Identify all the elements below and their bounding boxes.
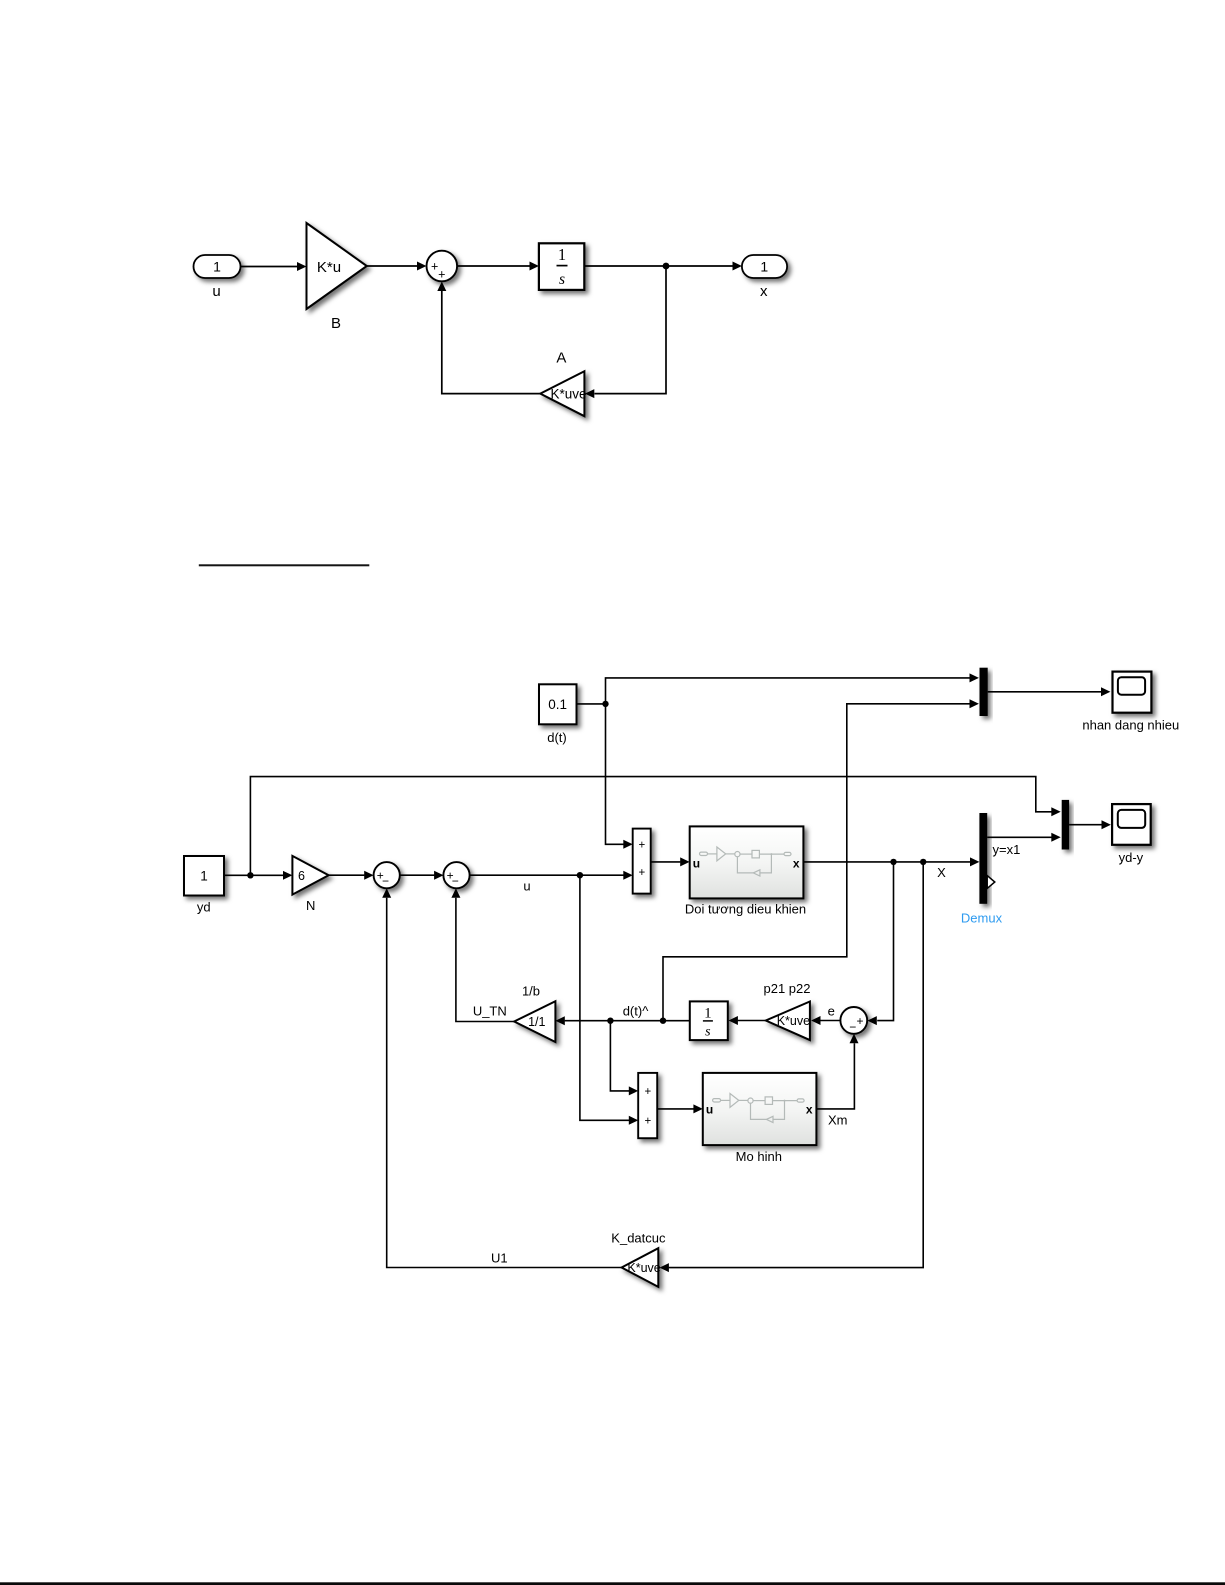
svg-text:0.1: 0.1 <box>548 697 567 712</box>
scope nhan dang nhieu <box>1113 672 1152 713</box>
svg-text:x: x <box>793 857 800 871</box>
constant yd (1) <box>184 856 224 896</box>
wire X to sum S3 right input <box>867 862 893 1025</box>
wire In1 to gain B <box>241 262 307 271</box>
junction node X wire to sum S3 <box>890 859 896 865</box>
svg-text:U1: U1 <box>491 1250 508 1265</box>
wire gain N to sum S2a <box>329 871 374 880</box>
sum rectangle SR2 (+ +) <box>638 1073 657 1138</box>
junction node d(t)-hat to mux path <box>660 1018 666 1024</box>
svg-text:K_datcuc: K_datcuc <box>611 1230 666 1245</box>
svg-text:+: + <box>438 268 445 282</box>
wire sum S2b to sum rect SR1 (u wire) <box>470 871 633 880</box>
svg-text:x: x <box>760 283 768 300</box>
wire d(t) to mux M1 top input <box>606 673 979 704</box>
svg-text:1: 1 <box>704 1005 712 1021</box>
svg-text:nhan dang nhieu: nhan dang nhieu <box>1082 717 1179 732</box>
wire integrator to outport x <box>584 262 742 271</box>
svg-text:x: x <box>806 1102 813 1116</box>
svg-text:1/1: 1/1 <box>528 1015 545 1029</box>
svg-text:e: e <box>828 1004 835 1019</box>
svg-text:d(t): d(t) <box>547 730 567 745</box>
svg-text:1: 1 <box>760 259 768 275</box>
junction node on yd wire <box>247 872 253 878</box>
scope yd-y <box>1112 804 1151 845</box>
svg-text:1: 1 <box>558 245 566 264</box>
constant d(t) (0.1) <box>539 684 577 724</box>
svg-text:+: + <box>644 1115 651 1127</box>
svg-text:u: u <box>693 857 700 871</box>
svg-text:K*u: K*u <box>317 259 341 276</box>
wire mux M1 to scope nhan dang nhieu <box>988 687 1111 696</box>
svg-text:s: s <box>705 1024 711 1039</box>
wire gain A to sum S1 bottom <box>437 282 540 394</box>
junction node d(t)-hat to SR2 path <box>607 1018 613 1024</box>
sum S2a (+ -) <box>374 862 400 888</box>
svg-text:1/b: 1/b <box>522 984 540 999</box>
wire sum S3 to gain p21 p22 (e wire) <box>811 1016 840 1025</box>
svg-text:u: u <box>212 283 220 300</box>
svg-text:−: − <box>382 874 389 888</box>
svg-text:6: 6 <box>298 869 305 883</box>
wire integrator I2 to gain 1/b <box>555 1016 689 1025</box>
svg-text:K*uve: K*uve <box>551 386 587 401</box>
subsystem SS1 "Doi tuong dieu khien" <box>690 826 804 898</box>
wire gain K_datcuc to sum S2a bottom input (U1 wire) <box>382 888 621 1267</box>
svg-text:+: + <box>638 839 645 851</box>
mux M2 <box>1062 800 1069 850</box>
integrator block 1/s <box>539 243 584 290</box>
gain p21 p22 (K*uve, flipped) <box>766 1002 810 1041</box>
feedback wire x to gain A <box>585 266 666 398</box>
junction node on x wire <box>663 263 670 270</box>
svg-text:1: 1 <box>200 869 208 884</box>
svg-text:1: 1 <box>213 259 221 275</box>
wire X to gain K_datcuc <box>660 862 924 1272</box>
wire d(t)-hat to mux M1 bottom input <box>663 699 979 1020</box>
integrator I2 (1/s, flipped) <box>690 1001 728 1040</box>
demux block <box>979 813 987 904</box>
svg-text:+: + <box>638 867 645 879</box>
wire yd branch to mux M2 top input <box>250 777 1060 876</box>
wire sum S1 to integrator 1/s <box>457 262 539 271</box>
svg-text:−: − <box>452 874 459 888</box>
wire d(t)-hat to sum rect SR2 top input <box>610 1021 638 1096</box>
sum S3 (e sum, flipped) <box>840 1007 867 1034</box>
gain A (K*uve, flipped) <box>540 371 586 416</box>
demux out2 unconnected port arrow <box>987 876 995 889</box>
svg-text:+: + <box>644 1086 651 1098</box>
subsystem SS2 "Mo hinh" <box>703 1073 817 1145</box>
wire demux out1 to mux M2 bottom input <box>987 833 1060 842</box>
svg-text:s: s <box>559 271 565 288</box>
underline rule <box>199 564 369 566</box>
gain B (K*u) <box>307 223 367 309</box>
wire d(t) to sum rect SR1 top input <box>606 704 633 849</box>
svg-text:y=x1: y=x1 <box>993 842 1021 857</box>
svg-text:B: B <box>331 315 341 332</box>
outport Out1 "x" (oval 1) <box>742 255 787 278</box>
svg-text:K*uve: K*uve <box>777 1014 810 1028</box>
wire u to sum rect SR2 bottom input <box>580 875 638 1125</box>
svg-text:−: − <box>849 1020 856 1034</box>
svg-text:U_TN: U_TN <box>473 1003 507 1018</box>
svg-text:X: X <box>937 865 946 880</box>
sum S1 (+ +) <box>427 251 458 282</box>
junction node X wire to gain K_datcuc <box>920 859 926 865</box>
wire gain p21 p22 to integrator I2 <box>729 1016 766 1025</box>
wire SS2 to sum S3 bottom input (Xm wire) <box>816 1034 858 1109</box>
sum rectangle SR1 (+ +) <box>633 829 651 894</box>
svg-text:p21 p22: p21 p22 <box>764 981 811 996</box>
inport In1 "u" (oval 1) <box>194 255 241 278</box>
gain U_TN 1/b (1/1, flipped) <box>514 1001 555 1042</box>
bottom page boundary line <box>0 1582 1225 1585</box>
svg-text:yd: yd <box>197 900 211 915</box>
svg-text:yd-y: yd-y <box>1119 850 1144 865</box>
svg-text:u: u <box>706 1102 713 1116</box>
svg-text:A: A <box>556 350 566 367</box>
wire SR1 to subsystem SS1 <box>651 857 690 866</box>
wire gain 1/b to sum S2b bottom input <box>451 888 514 1021</box>
svg-text:N: N <box>306 898 315 913</box>
svg-text:Xm: Xm <box>828 1113 848 1128</box>
svg-text:Mo hinh: Mo hinh <box>736 1149 782 1164</box>
svg-text:d(t)^: d(t)^ <box>623 1003 650 1018</box>
junction node on d(t) wire <box>602 701 608 707</box>
wire mux M2 to scope yd-y <box>1069 820 1111 829</box>
junction node on u wire <box>577 872 583 878</box>
sum S2b (+ -) <box>443 862 469 888</box>
wire SR2 to subsystem SS2 <box>657 1104 703 1113</box>
svg-text:K*uve: K*uve <box>627 1261 660 1275</box>
mux M1 <box>980 668 988 716</box>
wire SS1 to demux (X wire) <box>803 857 979 866</box>
svg-text:Doi tương dieu khien: Doi tương dieu khien <box>685 902 806 917</box>
gain N (6) <box>292 856 328 895</box>
wire sum S2a to sum S2b <box>400 871 444 880</box>
gain K_datcuc (K*uve, flipped) <box>622 1248 661 1287</box>
svg-text:u: u <box>523 879 530 894</box>
wire gain B to sum S1 <box>367 262 427 271</box>
wire d(t) to junction <box>577 703 606 705</box>
wire yd to gain N <box>224 871 292 880</box>
svg-text:Demux: Demux <box>961 911 1003 926</box>
svg-text:+: + <box>856 1014 863 1028</box>
